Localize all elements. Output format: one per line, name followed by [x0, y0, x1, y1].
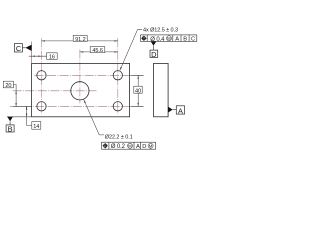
svg-text:20: 20: [5, 83, 11, 89]
dimension 14 line: [27, 106, 32, 125]
svg-text:16: 16: [49, 54, 55, 60]
svg-text:4x Ø12.5 ± 0.3: 4x Ø12.5 ± 0.3: [143, 28, 178, 34]
circle M modifier 2: [127, 143, 132, 148]
svg-text:40: 40: [135, 88, 141, 94]
plate front view: [32, 63, 130, 116]
position symbol: [141, 36, 146, 41]
extension lines 40 dim: [131, 75, 143, 106]
dimension 16 box: [47, 53, 58, 60]
dimension 20 leader and line: [13, 85, 16, 107]
centerline column right: [117, 38, 119, 114]
extension line bottom edge left of plate: [7, 116, 32, 118]
datum A: [168, 106, 185, 116]
dimension 45.6 box: [90, 47, 105, 53]
leader to top-right hole: [120, 30, 142, 71]
hole bottom-left: [37, 102, 46, 111]
svg-text:D: D: [142, 144, 146, 150]
datum B: [6, 117, 14, 134]
svg-text:45.6: 45.6: [92, 48, 103, 54]
svg-text:A: A: [136, 144, 140, 150]
hole bottom-right: [113, 102, 122, 111]
dimension 16 line: [29, 55, 47, 57]
extension line bottom row left: [13, 105, 32, 107]
big hole: [71, 82, 89, 100]
svg-text:M: M: [167, 36, 171, 41]
svg-text:C: C: [16, 44, 22, 53]
svg-text:B: B: [8, 124, 13, 133]
leader to big hole: [84, 100, 104, 135]
svg-text:B: B: [183, 36, 187, 42]
FCF position holes: [141, 35, 197, 42]
FCF big hole: [102, 142, 156, 149]
svg-text:M: M: [149, 143, 153, 148]
dimension 40 box: [134, 86, 142, 93]
dimension 20 box: [3, 81, 13, 88]
centerline column left: [41, 38, 43, 114]
position symbol 2: [103, 143, 108, 148]
hole top-right: [113, 71, 122, 80]
circle M modifier: [166, 36, 171, 41]
dimension 91.2 line: [42, 40, 118, 42]
svg-text:Ø 0.4: Ø 0.4: [150, 37, 165, 43]
svg-text:D: D: [151, 50, 156, 59]
centerline row top: [34, 74, 143, 76]
centerline big hole horizontal: [13, 90, 97, 92]
svg-text:91.2: 91.2: [75, 37, 86, 43]
hole top-left: [37, 71, 46, 80]
dimension 91.2 box: [73, 35, 87, 41]
extension line left edge above plate: [31, 42, 33, 64]
svg-text:A: A: [175, 36, 179, 42]
svg-text:Ø 0.2: Ø 0.2: [111, 144, 126, 150]
svg-text:C: C: [191, 36, 195, 42]
dimension 40 line: [137, 75, 139, 106]
centerline row bottom: [10, 105, 144, 107]
circle M modifier 3: [148, 143, 153, 148]
svg-text:A: A: [178, 106, 183, 115]
svg-text:Ø22.2 ± 0.1: Ø22.2 ± 0.1: [105, 134, 133, 140]
svg-text:14: 14: [33, 124, 39, 130]
dimension 14 box: [32, 122, 41, 130]
svg-text:M: M: [128, 143, 132, 148]
dimension 45.6 line: [80, 51, 118, 53]
side view: [154, 63, 169, 116]
centerline big hole vertical: [79, 49, 81, 103]
datum C: [14, 44, 31, 54]
datum D: [150, 41, 158, 59]
